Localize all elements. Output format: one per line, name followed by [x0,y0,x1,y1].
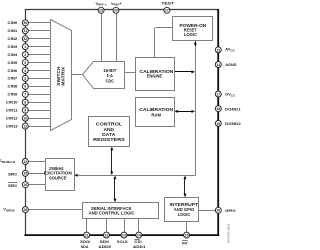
svg-text:ENGINE: ENGINE [147,74,163,79]
wire bus horizontal [78,175,196,177]
wire serial interface to SDO/SDA pin [86,218,88,232]
pin CIN5 (3) [22,60,28,66]
svg-text:17: 17 [216,92,220,96]
wire calibration RAM to bus [177,111,194,113]
pin TEST (27) [164,7,170,13]
pin CIN9 (7) [22,91,28,97]
wire serial interface to SCLK pin [124,218,126,232]
svg-text:TEST: TEST [161,1,175,5]
pin CS/ADD1 (24) [136,232,142,238]
pin INT-bar (25) [184,232,190,238]
svg-text:CIN7: CIN7 [8,77,18,81]
svg-text:POWER-ON: POWER-ON [180,23,207,28]
svg-text:8: 8 [24,101,26,105]
svg-text:SRC: SRC [8,184,18,188]
svg-text:SCLK: SCLK [117,240,128,244]
svg-text:29: 29 [99,9,103,13]
arrow bus into interrupt logic [184,194,187,198]
wire CDC to calibration engine [125,72,136,74]
arrow calibration engine to bus [191,70,195,73]
pin GPIO (26) [215,207,221,213]
svg-text:20: 20 [114,9,118,13]
svg-text:16-BIT: 16-BIT [103,68,116,73]
svg-text:10: 10 [23,117,27,121]
svg-text:SOURCE: SOURCE [49,176,67,181]
arrow control registers to bus [110,172,113,176]
switch matrix block [51,20,72,131]
wire CIN4 to switch matrix [28,54,50,56]
svg-text:RAM: RAM [151,112,161,117]
svg-text:CIN13: CIN13 [6,124,18,128]
wire CIN5 to switch matrix [28,62,50,64]
svg-text:CIN12: CIN12 [6,116,18,120]
svg-text:2: 2 [24,53,26,57]
wire switch matrix output to CDC [71,74,82,76]
pin CIN1 (31) [22,28,28,34]
svg-text:28: 28 [23,208,27,212]
svg-text:23: 23 [122,233,126,237]
svg-text:16: 16 [23,183,27,187]
pin CIN3 (1) [22,44,28,50]
pin CIN4 (2) [22,52,28,58]
pin SDI/ADD0 (22) [103,232,109,238]
svg-text:LOGIC: LOGIC [178,212,191,217]
pin CIN11 (9) [22,107,28,113]
svg-text:AGND: AGND [225,63,236,67]
svg-text:31: 31 [23,29,27,33]
pin VREF- (29) [98,7,104,13]
svg-text:DGND1: DGND1 [225,108,242,112]
svg-text:CIN3: CIN3 [8,45,18,49]
svg-text:AND: AND [104,127,115,132]
svg-text:GPIO: GPIO [225,209,235,213]
wire ACSHIELD to excitation source [28,161,46,163]
svg-text:1: 1 [24,45,26,49]
pin AVCC (13) [215,47,221,53]
arrow serial interface to bus [114,176,117,180]
chip outline left edge [24,10,26,236]
pin CIN8 (6) [22,83,28,89]
pin DVCC (17) [215,91,221,97]
svg-text:CALIBRATION: CALIBRATION [140,69,175,74]
wire interrupt logic to GPIO pin [199,210,216,212]
wire bus vertical [195,44,197,175]
pin SRC-bar (16) [22,182,28,188]
svg-text:CDC: CDC [106,78,115,83]
svg-text:CS/: CS/ [134,240,142,244]
wire CIN9 to switch matrix [28,94,50,96]
pin CIN13 (11) [22,123,28,129]
svg-text:32: 32 [23,37,27,41]
svg-text:REGISTERS: REGISTERS [93,137,125,142]
wire bus to serial interface [114,178,116,201]
svg-text:CALIBRATION: CALIBRATION [139,107,174,112]
svg-text:CIN10: CIN10 [6,101,18,105]
wire serial interface to CS/ADD1 pin [138,218,140,232]
calibration engine block [136,58,175,91]
pin DGND1 (18) [215,106,221,112]
wire SRC to excitation source [28,173,46,175]
svg-text:CIN8: CIN8 [8,85,19,89]
svg-text:INTERRUPT: INTERRUPT [170,202,199,207]
svg-text:AND GPIO: AND GPIO [174,207,195,212]
arrow calibration RAM to bus [192,110,196,113]
16-bit sigma-delta CDC block [83,62,125,89]
pin CIN2 (32) [22,36,28,42]
pin VREF+ (20) [113,7,119,13]
wire VDRIVE to serial interface [28,209,83,211]
arrow bus into serial interface [114,199,117,203]
wire POR to calibration engine (vertical) [154,28,156,57]
wire control registers to bus [111,149,113,173]
pin SCLK (23) [121,232,127,238]
pin SRC (15) [22,170,28,176]
svg-text:CONTROL: CONTROL [96,122,123,127]
arrow bus into calibration RAM [174,110,178,113]
svg-text:7: 7 [24,93,26,97]
label SDI/ADD0 [98,240,111,249]
wire calibration engine to bus [174,71,192,73]
pin SDO/SDA (21) [84,232,90,238]
svg-text:CIN11: CIN11 [6,109,19,113]
pin CIN0 (30) [22,20,28,26]
svg-text:INT: INT [182,241,188,245]
wire CIN11 to switch matrix [28,110,50,112]
svg-text:SWITCHMATRIX: SWITCHMATRIX [56,67,66,86]
arrow interrupt logic to bus [184,176,187,180]
chip outline right edge [216,9,220,235]
svg-text:Σ-Δ: Σ-Δ [107,73,114,78]
wire POR to calibration engine (horizontal) [155,27,173,29]
serial interface and control logic block [83,203,159,219]
svg-text:15: 15 [23,172,27,176]
svg-text:CIN1: CIN1 [8,29,19,33]
svg-text:3: 3 [24,61,26,65]
pin CIN7 (5) [22,75,28,81]
svg-text:19: 19 [216,122,220,126]
svg-text:AND CONTROL LOGIC: AND CONTROL LOGIC [89,210,135,215]
chip outline top edge [25,8,219,10]
pin CIN12 (10) [22,115,28,121]
pin AGND (14) [215,62,221,68]
svg-text:9: 9 [24,109,26,113]
wire SRC-bar to excitation source [28,184,46,186]
svg-text:12: 12 [23,160,27,164]
svg-text:26: 26 [216,209,220,213]
svg-text:6: 6 [24,85,26,89]
wire CIN3 to switch matrix [28,46,50,48]
wire CIN6 to switch matrix [28,70,50,72]
svg-text:05702-001: 05702-001 [227,223,231,243]
wire CIN12 to switch matrix [28,118,50,120]
svg-text:30: 30 [23,21,27,25]
svg-text:SDI/: SDI/ [100,240,111,244]
wire interrupt logic to INT pin [186,222,188,233]
label INT-bar [182,241,188,246]
power-on reset logic block [173,17,213,41]
label SRC-bar [8,183,18,188]
arrow bus into excitation source [74,174,78,177]
250kHz excitation source block [44,159,75,191]
svg-text:21: 21 [85,233,89,237]
wire CIN8 to switch matrix [28,86,50,88]
svg-text:DATA: DATA [102,132,116,137]
chip outline bottom edge [24,233,219,237]
svg-text:ADD1: ADD1 [133,245,147,249]
svg-text:13: 13 [216,48,220,52]
wire CIN10 to switch matrix [28,102,50,104]
wire VREF- to CDC [101,13,103,62]
svg-text:5: 5 [24,77,26,81]
svg-text:27: 27 [165,9,169,13]
svg-text:11: 11 [23,124,27,128]
pin DGND2 (19) [215,120,221,126]
svg-text:SDA: SDA [81,245,89,249]
wire CIN7 to switch matrix [28,78,50,80]
wire bus to interrupt logic [184,178,186,196]
wire CIN13 to switch matrix [28,126,50,128]
svg-text:EXCITATION: EXCITATION [44,171,73,176]
svg-text:22: 22 [104,233,108,237]
wire VREF+ to CDC [116,13,118,62]
wire CIN2 to switch matrix [28,38,50,40]
wire CIN0 to switch matrix [28,22,50,24]
svg-text:SDO/: SDO/ [80,240,91,244]
svg-text:25: 25 [185,233,189,237]
svg-text:CIN5: CIN5 [8,61,19,65]
svg-text:SRC: SRC [8,172,18,176]
wire serial interface to SDI/ADD0 pin [106,218,108,232]
svg-text:ACSHIELD: ACSHIELD [0,159,15,164]
pin CIN6 (4) [22,68,28,74]
svg-text:DGND2: DGND2 [225,122,241,126]
svg-text:CIN4: CIN4 [8,53,19,57]
svg-text:LOGIC: LOGIC [184,32,198,37]
interrupt and GPIO logic block [165,198,199,222]
control and data registers block [89,117,130,147]
arrow bus into POR logic [195,41,197,46]
svg-text:CIN0: CIN0 [8,21,18,25]
svg-text:CIN6: CIN6 [8,69,18,73]
AD7142 functional block diagram [0,0,242,250]
wire CIN1 to switch matrix [28,30,50,32]
label SDO/SDA [80,240,91,249]
svg-text:ADD0: ADD0 [98,245,111,249]
pin CIN10 (8) [22,99,28,105]
svg-text:CIN2: CIN2 [8,37,18,41]
calibration RAM block [136,98,175,127]
arrow bus into control registers [110,147,113,151]
pin VDRIVE (28) [22,207,28,213]
pin ACSHIELD (12) [22,159,28,165]
label CS/ADD1 [133,240,147,249]
svg-text:18: 18 [216,107,220,111]
svg-text:CIN9: CIN9 [8,93,18,97]
